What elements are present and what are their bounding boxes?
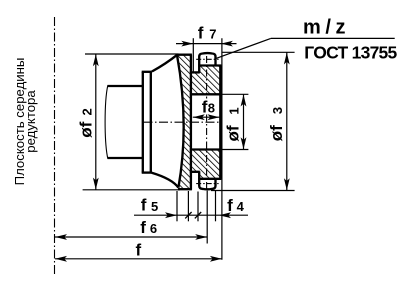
svg-text:4: 4 — [237, 199, 245, 214]
svg-text:f: f — [227, 196, 233, 215]
svg-text:f: f — [198, 24, 204, 43]
svg-text:f: f — [140, 218, 146, 237]
svg-text:øf: øf — [223, 125, 242, 141]
svg-text:редуктора: редуктора — [23, 90, 38, 153]
svg-text:f: f — [141, 196, 147, 215]
svg-text:øf: øf — [267, 125, 286, 141]
svg-text:2: 2 — [80, 108, 95, 115]
svg-text:5: 5 — [151, 199, 158, 214]
svg-text:3: 3 — [270, 107, 285, 114]
svg-text:7: 7 — [209, 27, 216, 42]
svg-text:6: 6 — [150, 221, 157, 236]
svg-text:ГОСТ 13755: ГОСТ 13755 — [304, 42, 397, 62]
svg-text:8: 8 — [208, 101, 215, 116]
svg-text:øf: øf — [77, 121, 96, 137]
svg-text:m / z: m / z — [303, 16, 345, 38]
svg-text:f: f — [136, 241, 142, 260]
svg-text:1: 1 — [226, 107, 241, 114]
